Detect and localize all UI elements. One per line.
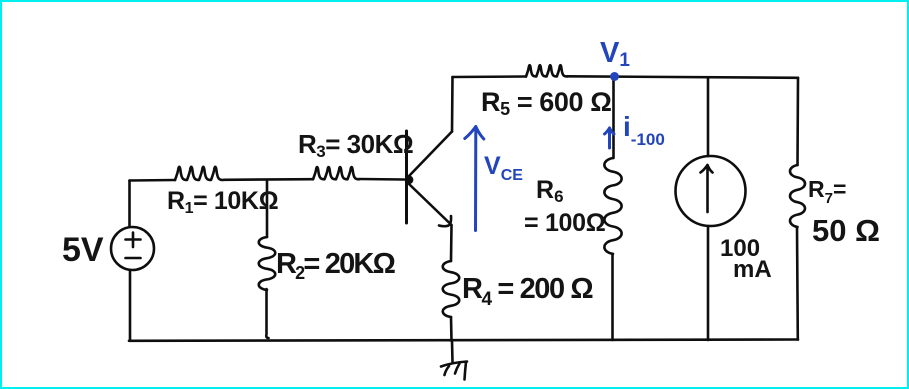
wire: R6 vertical top segment xyxy=(612,77,615,158)
wire: bottom horizontal xyxy=(129,340,798,341)
node: base junction dot xyxy=(405,175,414,184)
wire: R6 vertical bottom segment xyxy=(611,254,614,340)
wire: collector vertical to top rail xyxy=(451,77,454,132)
arrow VCE xyxy=(474,128,477,231)
svg-text:5V: 5V xyxy=(62,231,104,269)
resistor R5 (coil bumps) xyxy=(526,65,567,76)
resistor R6 (vertical wavy zigzag) xyxy=(604,158,621,254)
transistor Q1 base bar xyxy=(405,131,408,223)
wire: R1 to base-junction horizontal xyxy=(224,178,313,181)
svg-text:50 Ω: 50 Ω xyxy=(812,213,880,248)
resistor R7 (vertical wavy zigzag) xyxy=(790,165,805,227)
wire: R5 to right end of top rail xyxy=(567,76,798,78)
svg-text:R1= 10KΩ: R1= 10KΩ xyxy=(167,187,279,217)
svg-text:R3= 30KΩ: R3= 30KΩ xyxy=(298,129,413,161)
wire: left vertical top (source to top-left corner) xyxy=(128,181,131,227)
wire: junction to R3 xyxy=(359,178,404,181)
arrow i100 (small up arrow) xyxy=(605,128,615,148)
svg-text:mA: mA xyxy=(733,256,772,283)
transistor Q1 emitter diagonal xyxy=(409,184,452,225)
ground xyxy=(441,341,467,380)
plus sign inside source xyxy=(126,233,141,248)
current source arrow xyxy=(701,165,713,212)
transistor Q1 collector diagonal xyxy=(409,132,452,177)
resistor R1 (coil bumps) xyxy=(175,167,223,180)
voltage source V 5V circle xyxy=(111,227,154,270)
wire: current source top segment xyxy=(707,78,710,157)
wire: R2 vertical bottom segment xyxy=(266,289,268,338)
current source I1 circle xyxy=(676,156,746,226)
wire: top-left horizontal (to R1) xyxy=(130,179,176,182)
wire: left vertical below source xyxy=(129,270,132,341)
wire: right vertical bottom segment xyxy=(796,227,799,340)
resistor R2 (vertical zigzag) xyxy=(259,237,276,290)
wire: current source bottom segment xyxy=(707,226,710,340)
wire: R2 vertical top segment xyxy=(266,180,269,237)
wire: emitter vertical to R4 xyxy=(450,225,453,261)
node V1 dot (blue) xyxy=(610,72,619,81)
emitter arrowhead xyxy=(439,216,451,226)
minus sign inside source xyxy=(126,257,141,260)
wire: top rail horizontal xyxy=(453,75,527,78)
wire: right vertical top segment xyxy=(796,78,799,165)
resistor R4 (vertical zigzag) xyxy=(443,261,460,317)
resistor R3 (coil bumps) xyxy=(313,167,359,179)
svg-text:= 100Ω: = 100Ω xyxy=(524,209,606,237)
svg-text:R2= 20KΩ: R2= 20KΩ xyxy=(276,248,396,283)
wire: R4 to bottom rail xyxy=(450,317,453,341)
